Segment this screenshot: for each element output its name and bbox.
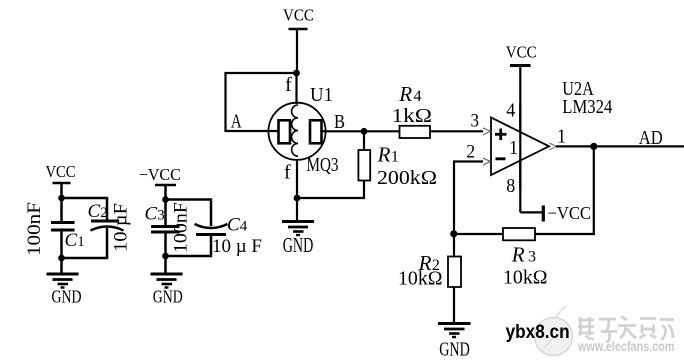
capacitor C4 10uF polarized — [195, 215, 263, 258]
capacitor C1 100nF — [24, 202, 85, 256]
power flag VCC (decoupling block 1) — [46, 162, 76, 198]
svg-text:GND: GND — [153, 287, 183, 307]
svg-text:1: 1 — [557, 126, 566, 148]
node bottom of C1/C2 — [58, 255, 65, 262]
svg-text:GND: GND — [52, 287, 82, 307]
svg-text:LM324: LM324 — [562, 96, 612, 118]
svg-text:C3: C3 — [145, 204, 165, 225]
gas sensor U1 MQ3 — [268, 73, 338, 176]
svg-text:A: A — [231, 111, 242, 133]
wire node to C4 top — [166, 200, 212, 227]
svg-text:AD: AD — [639, 127, 663, 149]
svg-text:4: 4 — [506, 100, 515, 122]
resistor R1 200k — [358, 143, 437, 189]
svg-text:1: 1 — [509, 137, 518, 159]
power flag VCC (op-amp) — [506, 43, 537, 66]
svg-text:MQ3: MQ3 — [307, 154, 339, 176]
svg-text:8: 8 — [506, 175, 515, 197]
ground symbol (R2) — [438, 324, 471, 361]
svg-text:VCC: VCC — [506, 43, 537, 62]
power flag -VCC (op-amp) — [543, 203, 591, 223]
svg-text:VCC: VCC — [283, 6, 314, 25]
resistor R3 10k — [503, 228, 548, 289]
wire R3 to inverting node — [454, 233, 504, 235]
power flag -VCC (decoupling block 2) — [139, 165, 181, 199]
svg-text:f: f — [285, 74, 292, 96]
svg-text:−VCC: −VCC — [139, 165, 181, 184]
wire heater loop left — [226, 73, 297, 131]
node top of C3/C4 — [162, 196, 169, 203]
wire node to C3 — [164, 200, 167, 226]
power pin 8 to -VCC flag — [520, 211, 542, 213]
watermark CJK glyph strokes — [578, 317, 674, 342]
wire node to R2 — [453, 234, 455, 257]
wire VCC node to C1 — [60, 198, 63, 222]
capacitor C2 10uF polarized — [88, 201, 132, 252]
svg-text:2: 2 — [466, 142, 475, 163]
wire node to C2 top — [62, 198, 108, 222]
output arrow pin 1 — [550, 143, 557, 150]
ground symbol (sensor) — [282, 198, 314, 257]
svg-text:f: f — [284, 162, 291, 184]
svg-text:10 µF: 10 µF — [111, 203, 132, 252]
node output — [590, 143, 597, 150]
svg-text:200kΩ: 200kΩ — [377, 168, 437, 189]
svg-text:VCC: VCC — [46, 162, 76, 181]
node sensor ground — [294, 195, 301, 202]
watermark logo circle — [535, 306, 573, 356]
svg-text:GND: GND — [439, 339, 470, 361]
feedback wire down — [536, 146, 594, 234]
resistor R4 1k — [392, 82, 433, 138]
wire sensor bottom to ground node — [296, 160, 298, 198]
wire C2 to bottom node — [62, 228, 108, 258]
wire R4 to op-amp pin3 — [430, 130, 483, 132]
svg-text:−VCC: −VCC — [548, 203, 592, 223]
op-amp power rail wire — [519, 66, 521, 213]
svg-text:3: 3 — [471, 110, 480, 131]
svg-text:B: B — [334, 111, 345, 133]
wire R2 to ground — [453, 287, 455, 322]
input arrow pin 3 — [483, 128, 491, 135]
svg-text:10kΩ: 10kΩ — [503, 268, 548, 289]
resistor R2 10k — [398, 251, 461, 290]
svg-text:C4: C4 — [227, 215, 248, 236]
wire C1 to bottom node — [60, 230, 63, 258]
svg-text:10kΩ: 10kΩ — [398, 269, 443, 290]
svg-text:10 µ F: 10 µ F — [212, 236, 262, 257]
power flag VCC (sensor supply) — [283, 6, 314, 74]
node inverting input — [450, 230, 457, 237]
svg-text:www.elecfans.com: www.elecfans.com — [577, 338, 674, 354]
node bottom of C3/C4 — [162, 253, 169, 260]
node top of C1/C2 — [58, 195, 65, 202]
wire pin2 from feedback node — [454, 162, 483, 234]
svg-text:U1: U1 — [310, 85, 333, 106]
svg-text:GND: GND — [283, 233, 314, 257]
wire sensor B to R4 — [322, 130, 400, 132]
svg-text:ybx8.cn: ybx8.cn — [506, 322, 570, 343]
wire C3 to bottom node — [164, 232, 167, 256]
ground symbol (C3/C4 block) — [151, 256, 183, 307]
svg-text:C2: C2 — [88, 201, 108, 222]
capacitor C3 100nF — [145, 202, 192, 253]
svg-text:C1: C1 — [65, 230, 85, 251]
node B / R1 — [361, 128, 368, 135]
wire R1 top — [363, 131, 365, 150]
svg-text:100nF: 100nF — [170, 202, 191, 253]
svg-text:100nF: 100nF — [24, 202, 45, 256]
wire R1 bottom to ground node — [297, 181, 364, 199]
input arrow pin 2 — [483, 158, 491, 165]
wire C4 to bottom node — [166, 235, 212, 257]
node sensor top — [293, 70, 300, 77]
svg-text:1kΩ: 1kΩ — [392, 106, 433, 127]
ground symbol (C1/C2 block) — [47, 258, 82, 307]
output wire to AD — [556, 145, 684, 147]
op-amp U2A LM324 — [491, 78, 612, 197]
